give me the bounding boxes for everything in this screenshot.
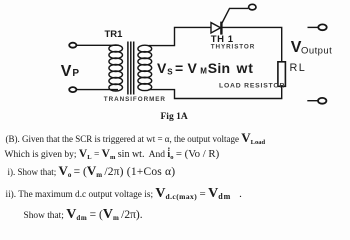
- svg-text:LOAD RESISTOR: LOAD RESISTOR: [219, 82, 285, 89]
- svg-text:M: M: [200, 67, 207, 76]
- svg-text:TRANSIFORMER: TRANSIFORMER: [104, 96, 166, 103]
- svg-text:=: =: [175, 60, 183, 76]
- svg-text:P: P: [72, 68, 79, 79]
- svg-text:Output: Output: [301, 45, 332, 56]
- svg-text:V: V: [157, 60, 167, 76]
- svg-text:THYRISTOR: THYRISTOR: [211, 44, 255, 51]
- svg-text:wt: wt: [236, 60, 254, 76]
- svg-text:S: S: [167, 68, 173, 77]
- svg-text:Sin: Sin: [208, 60, 231, 76]
- svg-text:V: V: [188, 60, 198, 76]
- svg-text:TR1: TR1: [105, 29, 124, 40]
- svg-text:RL: RL: [290, 62, 307, 74]
- svg-text:V: V: [61, 63, 72, 80]
